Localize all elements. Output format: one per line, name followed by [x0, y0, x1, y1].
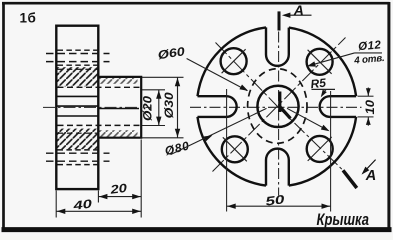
outer circle dia80 arc NE: [289, 28, 356, 97]
svg-text:50: 50: [265, 192, 286, 208]
hidden line extended (lower slot edge): [46, 160, 110, 162]
left slot R5: [198, 96, 237, 117]
border frame top: [2, 2, 390, 5]
hole dia12 bottom-left: [222, 136, 248, 162]
hole centermark tick top-left: [222, 49, 246, 73]
border frame right: [387, 2, 390, 230]
border frame bottom (thick): [2, 227, 392, 232]
outer circle dia80 arc NW: [198, 27, 267, 96]
dia12 leader line into top-right hole: [310, 53, 355, 66]
bolt circle dia60 (dashed, hand-drawn oval): [248, 69, 307, 144]
hidden line extended (lower hole axis): [46, 152, 110, 154]
extension line hub top (dia30): [142, 76, 184, 78]
dimension line dia30: [177, 77, 179, 138]
section hatch flange upper band: [57, 67, 98, 86]
hidden line inside lower hatch band: [58, 132, 99, 134]
section line thick stroke (top): [278, 11, 281, 30]
top slot R5: [266, 27, 289, 65]
dia60 leader line: [187, 59, 248, 91]
R5 shelf line: [312, 88, 336, 90]
section hatch hub upper band: [99, 78, 138, 84]
section hatch flange lower band: [57, 129, 98, 150]
hidden line (lower hole bottom): [58, 164, 99, 166]
hidden line bore bottom (dia 20): [58, 124, 141, 126]
hidden line extended (upper slot edge): [46, 53, 110, 55]
hidden line extended (upper hole axis): [46, 61, 110, 63]
dimension line 50: [227, 205, 331, 207]
section line thick end stroke (bottom-right): [343, 170, 357, 188]
outer circle dia80 arc SW: [198, 117, 267, 186]
extension line slot bottom (10): [358, 116, 374, 118]
section line thick bend stroke (diagonal at center): [280, 106, 291, 118]
hub axis feature line: [98, 108, 139, 110]
section view arrow (bottom, letter A): [364, 160, 376, 173]
section line thick bend stroke (vertical at center): [278, 92, 281, 113]
hidden line bore top (dia 20): [58, 86, 141, 88]
svg-text:40: 40: [71, 197, 93, 213]
hidden line (upper hole bottom): [58, 64, 99, 66]
section hatch hub lower band: [99, 130, 138, 137]
extension line left (50, slot center): [226, 89, 228, 212]
extension line right (50, slot center): [330, 91, 332, 212]
hidden line (upper hole top): [58, 49, 99, 51]
dimension line dia20: [158, 90, 160, 126]
svg-text:A: A: [293, 2, 304, 18]
diagonal centerline SW-NE (through holes): [213, 38, 346, 172]
svg-text:20: 20: [108, 181, 128, 197]
hole dia12 top-left: [221, 48, 247, 74]
svg-text:Ø20: Ø20: [143, 95, 155, 121]
middle feature line: [57, 105, 98, 107]
section view arrow (top, letter A): [284, 14, 312, 16]
svg-text:A: A: [365, 168, 376, 184]
extension line slot top (10): [358, 95, 374, 97]
hidden line (lower hole top): [58, 149, 99, 151]
extension line hub bottom (dia30): [142, 137, 184, 139]
dia12 label shelf line: [355, 52, 383, 54]
R5 leader to slot arc: [322, 89, 326, 95]
slot bottom line upper: [57, 95, 98, 97]
diagonal centerline NW (through top-left hole): [216, 43, 279, 108]
dimension line 20: [98, 196, 141, 198]
extension line left (40): [55, 191, 57, 218]
slot bottom line lower: [57, 115, 98, 117]
svg-text:Крышка: Крышка: [317, 210, 370, 229]
hole dia12 bottom-right: [307, 136, 333, 162]
bottom slot R5: [266, 149, 289, 186]
extension line middle (20): [97, 191, 99, 203]
horizontal centerline of front view: [190, 106, 362, 108]
outer circle dia80 arc SE: [289, 117, 356, 186]
section line SE segment (center to exit): [278, 107, 343, 170]
svg-text:10: 10: [365, 99, 377, 114]
center bore dia20 circle: [257, 86, 298, 127]
part axis centerline (left view): [43, 106, 152, 108]
hole centermark tick bottom-right: [308, 137, 332, 161]
extension line bore top (dia20): [142, 89, 165, 91]
svg-text:Ø30: Ø30: [164, 92, 176, 119]
dimension line 40: [56, 210, 141, 212]
svg-text:1б: 1б: [20, 11, 37, 26]
right slot R5: [320, 96, 356, 117]
hole centermark tick top-right: [308, 50, 332, 74]
flange outline (side view rectangle 40 wide): [56, 26, 98, 189]
hub outline (step 20 wide, dia 30): [98, 77, 141, 138]
extension line bore bottom (dia20): [142, 125, 165, 127]
svg-text:Ø12: Ø12: [358, 39, 382, 53]
leader arrow from center to slot extension: [287, 108, 328, 130]
vertical centerline of front view: [278, 32, 280, 196]
hole dia12 top-right: [307, 49, 333, 75]
extension line right (20/40): [140, 140, 142, 218]
hidden line inside upper hatch band: [58, 68, 99, 70]
border frame left: [2, 2, 5, 230]
dimension line 10 (outside arrows): [367, 88, 369, 126]
dia80 leader line (radial, arrow on circle): [171, 108, 267, 154]
hole centermark tick bottom-left: [223, 137, 247, 161]
